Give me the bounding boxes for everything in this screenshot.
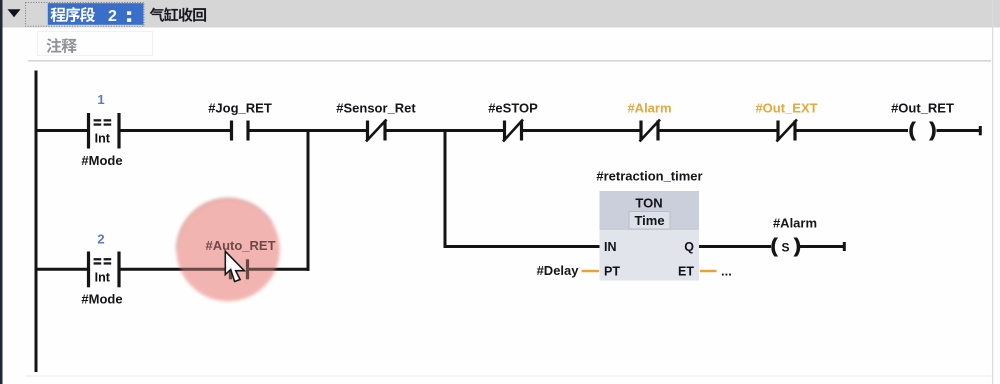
comparator 1 text == bbox=[94, 119, 112, 126]
wire node B to TON IN pin bbox=[444, 245, 601, 248]
NO contact #Jog_RET bbox=[232, 121, 249, 141]
NC contact #Alarm bbox=[640, 120, 661, 142]
svg-text:#Alarm: #Alarm bbox=[773, 216, 817, 231]
click highlight translucent overlay bbox=[177, 198, 280, 301]
right faint panel edge bbox=[992, 0, 993, 384]
NO contact #Auto_RET bbox=[231, 259, 248, 279]
header fullwidth colon bbox=[127, 11, 131, 15]
wire rung1: Jog_RET to Sensor_Ret (through node A) bbox=[248, 129, 368, 132]
svg-text:): ) bbox=[794, 235, 801, 257]
wire rung1: comparator to Jog_RET bbox=[119, 129, 232, 132]
NC contact #Out_EXT bbox=[777, 120, 798, 142]
wire rung1: Alarm to Out_EXT contact bbox=[658, 129, 778, 132]
node B branch vertical to timer IN bbox=[444, 130, 447, 247]
wire rung2: comparator 2 to Auto_RET bbox=[119, 268, 231, 271]
svg-text:...: ... bbox=[721, 264, 732, 279]
svg-text:Time: Time bbox=[634, 213, 664, 228]
NC contact #eSTOP bbox=[503, 120, 523, 142]
click highlight pink circle bbox=[177, 198, 280, 301]
left power rail bbox=[35, 71, 38, 373]
svg-text:Int: Int bbox=[95, 270, 111, 284]
wire S coil to end tick bbox=[800, 245, 844, 248]
separator line under comment bbox=[28, 60, 991, 61]
svg-text:TON: TON bbox=[635, 196, 662, 211]
wire TON Q pin to S coil bbox=[699, 245, 771, 248]
svg-text:#Out_EXT: #Out_EXT bbox=[755, 101, 817, 116]
network title dotted focus border bbox=[26, 3, 145, 27]
svg-text:#Delay: #Delay bbox=[537, 263, 580, 278]
header title 气缸收回 (black) bbox=[150, 7, 206, 21]
NC contact #Sensor_Ret bbox=[366, 120, 387, 142]
comparator contact 1 (==Int) bars bbox=[89, 113, 120, 149]
set coil (S) #Alarm bbox=[771, 235, 801, 257]
node A branch vertical (rung2 join) bbox=[307, 130, 310, 271]
network title blue selection box bbox=[48, 3, 144, 25]
collapse triangle bbox=[8, 9, 21, 17]
wire rung1: Sensor_Ret to eSTOP (through node B) bbox=[385, 129, 505, 132]
wire rung2: Auto_RET to node A bbox=[248, 268, 310, 271]
svg-text:S: S bbox=[781, 241, 789, 255]
header title 程序段 (white) bbox=[51, 7, 95, 22]
svg-text:2: 2 bbox=[108, 8, 117, 25]
comment placeholder 注释 bbox=[47, 38, 77, 53]
wire rung2: rail to comparator 2 bbox=[35, 268, 89, 271]
comparator contact 2 (==Int) bars bbox=[89, 252, 120, 288]
svg-text:): ) bbox=[930, 119, 937, 141]
svg-text:#retraction_timer: #retraction_timer bbox=[596, 169, 702, 184]
left dark panel edge bbox=[0, 0, 3, 384]
output coil #Out_RET bbox=[909, 119, 937, 141]
PT orange operand stub bbox=[582, 270, 600, 273]
wire rung1: eSTOP to Alarm contact bbox=[522, 129, 642, 132]
svg-text:#Mode: #Mode bbox=[81, 153, 122, 168]
svg-text:ET: ET bbox=[678, 265, 694, 279]
mouse cursor bbox=[225, 251, 244, 281]
wire rung1: coil to right end bbox=[937, 129, 981, 132]
svg-text:#Mode: #Mode bbox=[81, 292, 122, 307]
TON timer box U1 bbox=[600, 191, 700, 281]
svg-text:#Jog_RET: #Jog_RET bbox=[208, 101, 272, 116]
wire rung1: Out_EXT to Out_RET coil bbox=[795, 129, 908, 132]
svg-text:#Out_RET: #Out_RET bbox=[891, 101, 954, 116]
svg-text:(: ( bbox=[771, 235, 778, 257]
svg-text:(: ( bbox=[909, 119, 916, 141]
svg-text:1: 1 bbox=[97, 92, 104, 107]
wire rung1: rail to comparator bbox=[35, 129, 89, 132]
svg-text:IN: IN bbox=[604, 240, 617, 254]
Time datatype field bbox=[629, 212, 670, 230]
svg-text:Int: Int bbox=[95, 132, 111, 146]
svg-text:Q: Q bbox=[684, 240, 694, 254]
comparator 2 text == bbox=[94, 258, 112, 264]
right end tick rung1 bbox=[979, 126, 982, 135]
comment field faint outline bbox=[38, 32, 153, 56]
svg-text:#eSTOP: #eSTOP bbox=[488, 101, 538, 116]
network header bar bbox=[2, 0, 1000, 28]
network area bottom faint border bbox=[26, 376, 991, 377]
svg-text:#Alarm: #Alarm bbox=[627, 101, 671, 116]
ET orange operand stub bbox=[700, 270, 717, 273]
svg-text:#Sensor_Ret: #Sensor_Ret bbox=[336, 101, 416, 116]
S coil right end tick bbox=[843, 242, 846, 251]
svg-text:PT: PT bbox=[604, 265, 620, 279]
svg-text:2: 2 bbox=[97, 232, 104, 247]
